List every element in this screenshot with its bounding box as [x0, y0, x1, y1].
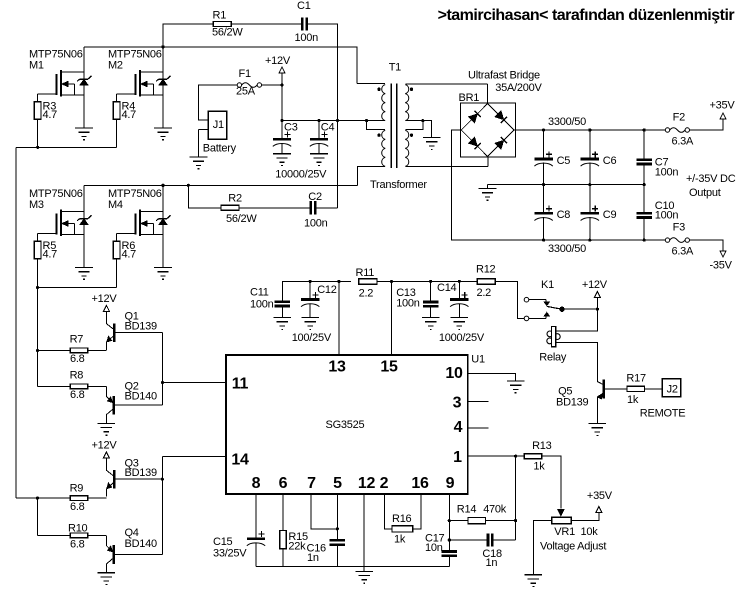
junction R7/bus — [36, 349, 39, 352]
svg-text:C5: C5 — [557, 155, 571, 167]
junction C5 bottom — [542, 183, 545, 186]
svg-text:3300/50: 3300/50 — [548, 116, 586, 128]
svg-text:+/-35V DC: +/-35V DC — [686, 173, 736, 185]
ground under M3 — [75, 268, 93, 280]
wire R16 to pin 16 — [413, 494, 421, 529]
gate resistor R3 4.7 for M1 — [34, 101, 57, 122]
resistor R12 2.2 — [476, 264, 496, 300]
wire +12V node down to caps row — [281, 73, 283, 121]
svg-text:1k: 1k — [394, 534, 406, 546]
svg-text:6.8: 6.8 — [70, 353, 85, 365]
wire C1 right then down to caps row and R2/C2 row — [307, 24, 337, 208]
wire pin 9 down to C17 — [448, 494, 450, 552]
wire secondary top to bridge top vertex — [487, 84, 489, 104]
svg-text:C3: C3 — [284, 122, 298, 134]
wire drop to R2 row — [188, 185, 221, 208]
junction Q3 base — [161, 478, 164, 481]
wire R12 to relay contact — [495, 281, 524, 318]
svg-text:33/25V: 33/25V — [213, 548, 247, 560]
svg-text:M1: M1 — [29, 60, 44, 72]
wire relay pole to +12V column — [565, 308, 598, 310]
wire M4 drain to row — [162, 185, 164, 211]
svg-text:C9: C9 — [603, 209, 617, 221]
wire R8 to Q2 emitter — [88, 385, 107, 387]
svg-text:6.3A: 6.3A — [672, 246, 695, 258]
svg-text:C8: C8 — [557, 209, 571, 221]
svg-text:25A: 25A — [236, 86, 256, 98]
svg-text:C15: C15 — [213, 536, 233, 548]
potentiometer VR1 10k — [540, 510, 606, 553]
svg-text:2.2: 2.2 — [359, 288, 374, 300]
svg-text:F3: F3 — [673, 222, 685, 234]
svg-text:3: 3 — [453, 394, 462, 411]
wire pin10 to ground — [468, 373, 516, 381]
mosfet M2 MTP75N06 — [108, 49, 170, 129]
mosfet M3 MTP75N06 — [29, 188, 91, 268]
ground at pin 10 — [507, 381, 525, 393]
svg-text:4.7: 4.7 — [43, 109, 58, 121]
ground under Q2 — [98, 423, 116, 435]
wire R7 to Q1 emitter — [88, 349, 107, 351]
svg-text:M4: M4 — [108, 199, 123, 211]
wire gate bus row y=147.3 (R3,R4 bottoms) — [16, 146, 116, 148]
ground under C12 — [301, 318, 319, 330]
wire bridge left vertex to negative rail — [451, 130, 543, 240]
title text — [438, 7, 735, 24]
transistor Q5 BD139 — [556, 379, 627, 423]
wire R4 bottom to row — [116, 119, 118, 147]
fuse F2 6.3A — [665, 112, 694, 148]
connector J2 REMOTE — [640, 379, 686, 420]
junction C3 — [280, 119, 283, 122]
svg-text:+12V: +12V — [92, 440, 118, 452]
wire pin 8 down to C15 — [255, 494, 257, 539]
svg-text:1: 1 — [453, 449, 462, 466]
wire Q1 base riser to junction — [162, 333, 164, 406]
junction C14 — [458, 280, 461, 283]
junction R14/C18 column — [514, 519, 517, 522]
capacitor C10 100n — [636, 185, 678, 241]
svg-text:Relay: Relay — [539, 352, 567, 364]
svg-text:4: 4 — [454, 419, 463, 436]
transistor Q3 BD139 (NPN) — [106, 457, 162, 496]
wire R1 to C1 — [231, 23, 302, 25]
wire positive rail y=130 bridge to F2 — [514, 129, 665, 131]
junction M4 drain — [161, 184, 164, 187]
svg-text:3300/50: 3300/50 — [548, 243, 586, 255]
resistor R8 6.8 — [70, 370, 88, 402]
wire control rail R11 to R12 — [377, 280, 476, 282]
resistor R15 22k — [280, 530, 308, 552]
svg-text:R11: R11 — [356, 267, 375, 279]
svg-text:R13: R13 — [532, 440, 552, 452]
svg-text:1k: 1k — [533, 461, 545, 473]
wire lower bus x=37.4 down to R10 row — [36, 498, 38, 535]
junction C8 bottom — [542, 239, 545, 242]
capacitor C13 100n — [396, 281, 438, 317]
capacitor C8 3300/50 — [534, 185, 570, 241]
svg-text:4.7: 4.7 — [43, 249, 58, 261]
svg-text:J2: J2 — [667, 384, 678, 396]
resistor R16 1k — [392, 513, 413, 546]
junction R3/row — [36, 146, 39, 149]
capacitor C17 10n — [425, 533, 457, 567]
pin 3 stub — [468, 400, 489, 402]
svg-text:16: 16 — [411, 475, 429, 492]
svg-text:1k: 1k — [627, 394, 639, 406]
svg-text:R17: R17 — [626, 373, 646, 385]
-35V output terminal — [710, 251, 733, 272]
wire relay coil bottom to Q5 collector — [556, 342, 598, 380]
svg-text:56/2W: 56/2W — [212, 27, 243, 39]
+12V supply at Q3 — [92, 440, 118, 459]
svg-text:J1: J1 — [213, 119, 224, 131]
ground at pin 12 — [355, 571, 373, 583]
resistor R9 6.8 — [70, 483, 88, 514]
svg-text:100n: 100n — [396, 297, 420, 309]
capacitor C7 100n — [636, 130, 678, 185]
junction C10 bottom — [643, 239, 646, 242]
op-amp U1 SG3525 IC body — [226, 354, 485, 495]
wire pin 2 down to R16 — [385, 494, 392, 529]
junction R2 row drop — [187, 184, 190, 187]
resistor R10 6.8 — [68, 523, 88, 551]
svg-text:C12: C12 — [317, 284, 337, 296]
svg-text:C6: C6 — [603, 155, 617, 167]
junction Q1/Q2 bases to pin11 — [161, 381, 164, 384]
wire pin 5 down to C16 — [336, 494, 338, 540]
svg-text:REMOTE: REMOTE — [640, 408, 686, 420]
wire R6 bottom to row — [116, 259, 118, 288]
svg-text:100n: 100n — [295, 32, 319, 44]
wire negative rail y=240.1 to F3 — [544, 239, 666, 241]
wire bus corner to R10 — [37, 535, 70, 537]
transistor Q4 BD140 (PNP) — [106, 527, 162, 573]
+12V supply at battery — [265, 55, 291, 73]
svg-text:BD140: BD140 — [125, 538, 158, 550]
svg-text:BD140: BD140 — [125, 391, 158, 403]
svg-text:100n: 100n — [304, 218, 328, 230]
svg-text:SG3525: SG3525 — [326, 419, 365, 431]
junction C9 bottom — [588, 239, 591, 242]
wire R15 to rail — [282, 549, 284, 567]
svg-text:R12: R12 — [476, 264, 496, 276]
ground under M1 — [75, 128, 93, 140]
svg-text:R2: R2 — [228, 193, 242, 205]
junction pin13 drop — [337, 280, 340, 283]
wire top rail y=24 from M2-drain riser to C1 — [163, 24, 213, 47]
wire gate bus row y=287.4 (R5,R6 bottoms) — [38, 286, 117, 288]
wire mid bus x=37.5 down to R8 row — [37, 287, 39, 386]
ground under C4 — [310, 154, 328, 166]
svg-text:10000/25V: 10000/25V — [275, 169, 327, 181]
svg-text:R7: R7 — [70, 334, 84, 346]
ground under C3 — [273, 154, 291, 166]
+35V at VR1 — [587, 490, 613, 513]
wire pin9 to R14 — [449, 520, 468, 522]
junction F1/+12V — [280, 83, 283, 86]
svg-text:C11: C11 — [250, 287, 269, 299]
capacitor C5 3300/50 — [534, 130, 570, 185]
svg-text:F1: F1 — [239, 68, 251, 80]
junction pole/+12V — [596, 308, 599, 311]
ground under M2 — [154, 128, 172, 140]
svg-text:C14: C14 — [437, 282, 457, 294]
wire bottom rail y=566.5 — [256, 566, 449, 568]
connector J1 battery — [199, 111, 237, 157]
ground at VR1 — [525, 575, 543, 587]
junction pin9/C18 row — [448, 538, 451, 541]
junction C6 top — [588, 128, 591, 131]
fuse F3 6.3A — [665, 222, 694, 258]
svg-text:7: 7 — [307, 475, 316, 492]
resistor R11 2.2 — [356, 267, 378, 300]
wire pin15 drop — [391, 281, 393, 355]
svg-text:BD139: BD139 — [556, 397, 589, 409]
wire to IC pin 11 — [163, 382, 226, 384]
wire drain row M3/M4 y=185.3 — [84, 184, 357, 186]
svg-text:R16: R16 — [392, 513, 412, 525]
svg-text:>tamircihasan< tarafından düze: >tamircihasan< tarafından düzenlenmiştir — [438, 7, 735, 24]
svg-text:2: 2 — [380, 475, 389, 492]
mosfet M4 MTP75N06 — [108, 188, 170, 268]
junction C13 — [429, 280, 432, 283]
capacitor C9 3300/50 — [581, 185, 617, 241]
wire R14 to R13 column — [486, 520, 516, 522]
wire M2 drain down from row — [162, 47, 164, 72]
svg-text:Voltage Adjust: Voltage Adjust — [540, 541, 606, 553]
svg-text:6.8: 6.8 — [70, 539, 85, 551]
svg-text:R8: R8 — [70, 370, 84, 382]
svg-text:100n: 100n — [655, 167, 679, 179]
svg-text:C1: C1 — [297, 0, 311, 12]
svg-text:10k: 10k — [581, 526, 599, 538]
mosfet M1 MTP75N06 — [29, 49, 91, 129]
junction pin9/R14 — [448, 519, 451, 522]
capacitor C16 1n — [307, 540, 346, 566]
transistor Q1 BD139 (NPN) — [106, 311, 162, 350]
capacitor C15 33/25V — [213, 531, 265, 567]
wire F3 to -35V — [690, 240, 724, 251]
junction C7/C10 mid — [643, 183, 646, 186]
svg-text:9: 9 — [446, 475, 455, 492]
svg-text:-35V: -35V — [710, 260, 733, 272]
svg-text:Battery: Battery — [203, 143, 237, 155]
wire M3 drain to row — [83, 185, 85, 211]
capacitor C11 100n — [250, 287, 290, 318]
wire bridge bottom vertex to secondary bottom — [487, 157, 489, 166]
relay contacts K1 — [524, 279, 565, 321]
bridge rectifier BR1 Ultrafast Bridge 35A/200V — [459, 70, 543, 158]
wire R3 bottom to row — [37, 119, 39, 147]
capacitor C4 10000/25V — [310, 121, 335, 154]
svg-text:10: 10 — [445, 365, 463, 382]
wire mid rail y=184.6 — [488, 184, 645, 186]
wire R13 to VR1 wiper — [542, 456, 561, 508]
junction C5 top — [542, 128, 545, 131]
ground under Q4 — [98, 573, 116, 585]
ground under J1 — [190, 157, 208, 169]
svg-text:1000/25V: 1000/25V — [439, 332, 485, 344]
svg-text:M3: M3 — [29, 199, 44, 211]
gate resistor R5 4.7 for M3 — [34, 240, 57, 261]
wire pin 12 down to rail and ground — [363, 494, 365, 571]
wire drain row M1/M2 y=46.8 to transformer primary top — [84, 47, 357, 84]
capacitor C2 100n — [304, 191, 328, 230]
svg-text:5: 5 — [333, 475, 342, 492]
junction C7 top — [643, 128, 646, 131]
gate resistor R6 4.7 for M4 — [113, 240, 136, 261]
wire Q3 base riser to pin 14 row — [161, 456, 163, 554]
wire R9 to Q3 emitter — [88, 497, 107, 499]
svg-text:Ultrafast Bridge: Ultrafast Bridge — [468, 70, 540, 82]
svg-text:BD139: BD139 — [125, 320, 158, 332]
svg-text:4.7: 4.7 — [122, 249, 137, 261]
wire R13 column pin1 to C18 row — [515, 456, 517, 540]
resistor R2 — [221, 193, 257, 226]
resistor R17 1k — [626, 373, 646, 407]
wire pin13 drop — [338, 281, 340, 355]
wire R2 to C2 — [239, 207, 311, 209]
svg-text:R14: R14 — [457, 504, 477, 516]
svg-text:K1: K1 — [541, 279, 554, 291]
svg-text:14: 14 — [231, 451, 249, 468]
junction C1-riser/caps-row — [336, 119, 339, 122]
resistor R13 1k — [524, 440, 551, 473]
ground at mid rail — [479, 185, 497, 201]
capacitor C14 1000/25V — [437, 281, 469, 317]
svg-text:100/25V: 100/25V — [292, 332, 332, 344]
svg-text:+35V: +35V — [710, 100, 736, 112]
wire to IC pin 14 — [162, 455, 226, 457]
wire R10 to Q4 emitter — [88, 535, 107, 537]
svg-text:Output: Output — [689, 187, 721, 199]
ground under C14 — [451, 318, 469, 330]
junction pin7/pin5 — [336, 527, 339, 530]
svg-text:C4: C4 — [321, 122, 335, 134]
svg-text:6.8: 6.8 — [70, 501, 85, 513]
junction R5/row — [36, 286, 39, 289]
svg-text:1n: 1n — [486, 557, 498, 569]
svg-text:10n: 10n — [425, 542, 443, 554]
svg-text:F2: F2 — [673, 112, 685, 124]
svg-text:22k: 22k — [288, 541, 306, 553]
junction R9 row / lower bus — [36, 497, 39, 500]
svg-text:BD139: BD139 — [125, 467, 158, 479]
label +/-35V DC Output — [686, 173, 736, 199]
+12V at relay — [582, 279, 608, 298]
capacitor C18 1n — [449, 533, 515, 569]
transistor Q2 BD140 (PNP) — [106, 381, 162, 424]
ground under C11 — [274, 318, 292, 330]
resistor R14 470k — [457, 504, 507, 524]
wire +12V down to relay coil and Q5 — [556, 298, 598, 332]
svg-text:8: 8 — [252, 475, 261, 492]
ground at Q5 emitter — [589, 424, 607, 436]
wire R5 bottom to row — [37, 259, 39, 288]
junction C12 — [309, 280, 312, 283]
wire control rail y=281.4 left segment — [282, 281, 351, 301]
wire F1 left to J1 top pin — [199, 85, 238, 120]
svg-text:VR1: VR1 — [554, 526, 575, 538]
relay coil K1 — [539, 327, 567, 364]
wire VR1 right to +35V — [571, 513, 599, 521]
svg-text:Transformer: Transformer — [370, 179, 427, 191]
junction C6 bottom — [588, 183, 591, 186]
wire pin 6 down through R15 — [282, 494, 284, 530]
wire pin 1 row — [468, 455, 525, 457]
capacitor C12 100/25V — [301, 281, 337, 317]
junction pin15 drop — [390, 280, 393, 283]
resistor R7 6.8 — [70, 334, 88, 366]
capacitor C3 10000/25V — [273, 121, 298, 154]
ground under M4 — [154, 268, 172, 280]
transformer T1 — [357, 62, 488, 192]
wire left bus x=16.2 down to R9 row — [15, 147, 17, 498]
svg-text:+12V: +12V — [265, 55, 291, 67]
wire bus to R7 — [38, 349, 71, 351]
svg-text:R9: R9 — [70, 483, 84, 495]
ground at transformer secondary center tap — [423, 138, 441, 150]
junction pin1/R14 column — [514, 455, 517, 458]
ground under C13 — [422, 318, 440, 330]
+35V output terminal — [710, 100, 736, 120]
svg-text:100n: 100n — [250, 299, 274, 311]
svg-text:BR1: BR1 — [459, 92, 480, 104]
pin 4 stub — [468, 427, 489, 429]
svg-text:+12V: +12V — [92, 293, 118, 305]
wire caps row y=120.6 to transformer center tap — [282, 120, 367, 122]
wire pin 7 jog to pin5 column — [311, 494, 337, 529]
gate resistor R4 4.7 for M2 — [113, 101, 136, 122]
svg-text:M2: M2 — [108, 60, 123, 72]
svg-text:6: 6 — [279, 475, 288, 492]
svg-text:6.3A: 6.3A — [672, 136, 695, 148]
svg-text:35A/200V: 35A/200V — [495, 82, 542, 94]
svg-text:6.8: 6.8 — [70, 389, 85, 401]
svg-text:15: 15 — [380, 359, 398, 376]
svg-text:56/2W: 56/2W — [226, 213, 257, 225]
wire VR1 left to ground — [533, 521, 551, 575]
wire left bus corner to R9 — [16, 497, 70, 499]
svg-text:12: 12 — [358, 475, 376, 492]
svg-text:R1: R1 — [213, 10, 227, 22]
wire R17 to J2 — [645, 388, 663, 390]
resistor R1 — [212, 10, 243, 39]
capacitor C1 100n — [295, 0, 319, 44]
svg-text:T1: T1 — [389, 62, 401, 74]
svg-text:470k: 470k — [483, 504, 507, 516]
svg-text:2.2: 2.2 — [477, 287, 492, 299]
wire bus corner to R8 — [38, 385, 71, 387]
capacitor C6 3300/50 — [581, 130, 617, 185]
wire C2 to riser — [315, 207, 337, 209]
svg-text:U1: U1 — [471, 354, 485, 366]
junction C4 — [317, 119, 320, 122]
+12V supply at Q1 — [92, 293, 118, 312]
svg-text:4.7: 4.7 — [122, 109, 137, 121]
wire F1 right to +12V node — [262, 84, 282, 86]
wire secondary center tap to ground — [423, 121, 432, 138]
junction M2 drain / R1 riser — [161, 45, 164, 48]
wire F2 to +35V — [690, 119, 724, 130]
fuse F1 25A — [236, 68, 262, 98]
svg-text:11: 11 — [232, 375, 249, 392]
svg-text:+35V: +35V — [587, 490, 613, 502]
svg-text:100n: 100n — [655, 209, 679, 221]
svg-text:13: 13 — [328, 359, 346, 376]
svg-text:1n: 1n — [307, 552, 319, 564]
